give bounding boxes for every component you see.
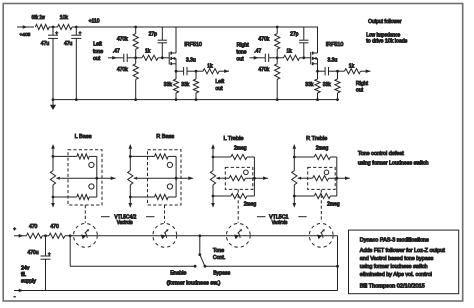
dashed link L Treble to vactrol LED [237,189,239,222]
wire L Bass wiper out [56,176,115,180]
svg-text:470: 470 [50,224,59,230]
wire L Bass bottom [52,196,77,199]
resistor 2meg R Treble lower [293,193,340,207]
svg-text:10k: 10k [60,15,69,21]
MOSFET IRF510 right [311,27,344,71]
svg-text:Bypass: Bypass [213,271,230,277]
svg-text:tone: tone [236,49,246,55]
svg-text:1k: 1k [207,64,213,70]
svg-text:1k: 1k [349,64,355,70]
label R Treble [306,136,327,142]
svg-text:470k: 470k [117,67,128,73]
resistor 470 #1 [26,224,42,239]
capacitor 470u [28,236,52,291]
potentiometer R Treble pot [292,144,301,208]
wire left tone input [108,56,122,60]
svg-text:out: out [93,56,101,62]
svg-text:27p: 27p [149,31,158,37]
text Right out [356,81,369,94]
resistor 470k upper left [117,34,138,50]
wire LED string [65,234,338,237]
svg-text:2meg: 2meg [316,145,329,151]
svg-text:using former Loudness switch: using former Loudness switch [358,161,429,167]
svg-text:(former loudness sw.): (former loudness sw.) [167,281,221,287]
wire output node right [336,70,339,101]
svg-text:3.3u: 3.3u [328,58,338,64]
wire divider left [134,26,137,101]
svg-text:47u: 47u [41,41,50,47]
svg-text:470: 470 [29,224,38,230]
vactrol LED R Treble [309,224,333,248]
resistor 1k gate right [284,49,300,61]
node +405 label [20,32,31,38]
switch tone control [198,236,206,268]
resistor 470 #2 [49,224,65,239]
svg-text:IRF510: IRF510 [184,42,202,48]
wire left out [196,69,229,73]
text 24v minus [14,294,16,300]
LDR circle R Treble [324,170,329,175]
svg-text:33k: 33k [164,82,173,88]
vactrol LED L Treble [226,224,250,248]
svg-text:Cont.: Cont. [213,255,225,261]
wire LED return [337,236,339,291]
svg-text:Tone control defeat: Tone control defeat [358,151,404,157]
svg-text:eliminated by Alps vol. contro: eliminated by Alps vol. control [360,272,432,278]
LDR circle L Bass upper [89,162,94,167]
svg-text:1k: 1k [287,49,293,55]
capacitor 47u #1 [41,27,59,100]
capacitor .47 right [254,49,277,62]
svg-text:33k: 33k [305,82,314,88]
svg-text:+: + [13,226,16,231]
vactrol dashed box R Bass [148,150,182,205]
wire R Bass top [129,155,155,158]
svg-text:Left: Left [93,42,102,48]
svg-text:33k: 33k [181,82,190,88]
svg-text:Vactrols: Vactrols [117,220,133,226]
potentiometer L Bass pot [50,144,59,208]
label L Bass [75,134,92,140]
node +110 label [89,18,100,24]
svg-text:.47: .47 [113,49,120,55]
label VTL5C4/2 Vactrols [101,214,155,226]
notes box [349,230,459,294]
dashed link R Treble to vactrol LED [320,189,322,222]
text notes body [360,248,446,278]
svg-text:470k: 470k [258,37,269,43]
wire bypass line [205,265,339,268]
wire source node left [175,70,178,101]
LDR resistor R Treble [298,176,350,181]
svg-text:33k: 33k [323,82,332,88]
svg-text:+: + [48,251,51,256]
capacitor 3.3u left [176,58,196,76]
resistor 2meg R Treble upper [293,145,337,159]
svg-text:to drive 10k loads: to drive 10k loads [366,39,407,45]
MOSFET IRF510 left [169,27,202,71]
svg-text:24v: 24v [21,265,30,271]
svg-text:using former loudness switch: using former loudness switch [360,264,428,270]
svg-text:+110: +110 [89,18,100,24]
svg-text:out: out [215,86,223,92]
svg-text:470k: 470k [258,67,269,73]
text Dynaco PAS-3 modifications [360,237,429,243]
text Right tone out [236,42,249,62]
svg-text:47u: 47u [64,41,73,47]
svg-text:Left: Left [215,79,224,85]
text Left tone out [93,42,103,62]
resistor 1k output left [203,64,219,74]
text Low impedance to drive 10k loads [366,32,407,44]
resistor 1k gate left [142,49,158,61]
capacitor 27p left [149,27,167,58]
LDR resistor R Bass lower [155,194,169,199]
LDR circle L Treble [244,170,249,175]
wire enable branch [70,236,196,268]
svg-text:2meg: 2meg [327,202,340,208]
svg-text:Enable: Enable [170,271,186,277]
label R Bass [156,134,174,140]
wire right tone input [250,56,264,60]
svg-text:470u: 470u [28,250,39,256]
svg-text:Output follower: Output follower [368,19,402,25]
capacitor .47 left [113,49,136,62]
svg-text:+405: +405 [20,32,31,38]
resistor 470k lower right [258,64,279,80]
svg-text:tone: tone [93,49,103,55]
svg-text:-: - [14,294,16,300]
vactrol LED R Bass [153,224,177,248]
LDR circle R Bass upper [167,162,172,167]
wire source node right [316,70,319,101]
svg-text:2meg: 2meg [234,145,247,151]
svg-text:Dynaco PAS-3 modifications: Dynaco PAS-3 modifications [360,237,429,243]
resistor 68k 2w [32,15,50,29]
wire R Bass wiper out [134,176,194,180]
LDR circle R Bass lower [167,184,172,189]
wire L Bass lower corner [89,178,97,197]
LDR resistor L Bass upper [77,154,90,159]
resistor 470k upper right [258,34,279,50]
wire R Bass bottom [129,196,155,199]
svg-text:2meg: 2meg [244,202,257,208]
vactrol dashed box L Bass [68,150,102,205]
svg-text:1k: 1k [145,49,151,55]
LDR resistor L Treble [216,176,268,181]
svg-text:IRF510: IRF510 [326,42,344,48]
LDR circle L Bass lower [89,184,94,189]
wire 10k to rail [72,26,318,29]
resistor 10k [58,15,73,29]
wire R Bass upper corner [168,156,176,178]
svg-text:R Bass: R Bass [156,134,174,140]
text Bypass [213,271,230,277]
svg-text:R Treble: R Treble [306,136,327,142]
wire 24v input [14,234,26,238]
label L Treble [224,136,244,142]
wire 24v return rail [14,289,338,293]
text Left out [215,79,224,92]
svg-text:out: out [356,88,364,94]
wire +405 input and top rail [17,25,34,29]
LDR resistor R Bass upper [155,154,169,159]
text tone control defeat note [358,151,429,167]
wire R Bass lower corner [168,178,176,197]
resistor 2meg L Treble upper [212,145,255,159]
svg-text:Right: Right [237,42,250,48]
wire gate right [277,56,311,59]
svg-text:out: out [236,57,244,63]
svg-text:L Treble: L Treble [224,136,244,142]
capacitor 27p right [290,27,308,58]
wire L Treble right side [253,157,256,196]
svg-text:Adds FET follower for Loz-Z ou: Adds FET follower for Loz-Z output [360,248,446,254]
svg-text:L Bass: L Bass [75,134,92,140]
dashed link L Bass to vactrol LED [84,205,86,223]
LDR resistor L Bass lower [77,194,90,199]
text Output follower [368,19,402,25]
ground rail [53,99,337,101]
wire between 470s [42,234,49,237]
capacitor 3.3u right [318,58,338,76]
svg-text:Right: Right [356,81,369,87]
vactrol dashed box R Treble [308,167,336,189]
wire divider right [276,26,279,101]
resistor 1k output right [345,64,361,74]
resistor 33k output right [323,79,340,93]
vactrol dashed box L Treble [225,167,253,189]
ground symbol [50,98,56,110]
svg-text:470k: 470k [117,37,128,43]
wire output node left [195,70,198,101]
resistor 33k source right [305,79,320,93]
svg-text:Tone: Tone [213,248,224,254]
svg-text:and Vactrol based tone bypass: and Vactrol based tone bypass [360,256,434,262]
svg-text:.47: .47 [254,49,261,55]
svg-text:Bill Thompson 02/10/2015: Bill Thompson 02/10/2015 [360,284,425,290]
svg-text:3.3u: 3.3u [186,58,196,64]
capacitor 47u #2 [64,27,82,101]
text 24v plus [13,226,16,231]
resistor 33k output left [181,79,198,93]
label VTL5C1 Vactrols [257,214,307,226]
vactrol LED L Bass [74,224,98,248]
resistor 33k source left [164,79,179,93]
resistor 2meg L Treble lower [212,193,257,207]
svg-text:+: + [55,31,58,36]
svg-text:supply: supply [21,278,36,284]
svg-text:+: + [79,31,82,36]
wire L Bass top [52,155,77,158]
svg-text:fil.: fil. [21,272,26,278]
svg-text:Low impedance: Low impedance [366,32,400,38]
wire L Bass upper corner [89,156,97,178]
wire right out [338,69,371,73]
wire R Treble right side [335,157,338,196]
svg-text:68k 2w: 68k 2w [32,15,46,21]
text Tone Cont [213,248,225,261]
potentiometer R Bass pot [128,144,137,208]
text Bill Thompson date [360,284,425,290]
text 24v fil supply [21,265,36,284]
wire 68k to 10k [49,26,58,29]
text former loudness sw [167,281,221,287]
text Enable [170,271,186,277]
dashed link R Bass to vactrol LED [164,205,166,223]
resistor 470k lower left [117,64,138,80]
svg-text:27p: 27p [290,31,299,37]
wire gate left [136,56,170,59]
svg-text:Vactrols: Vactrols [272,220,288,226]
potentiometer L Treble pot [210,144,219,208]
